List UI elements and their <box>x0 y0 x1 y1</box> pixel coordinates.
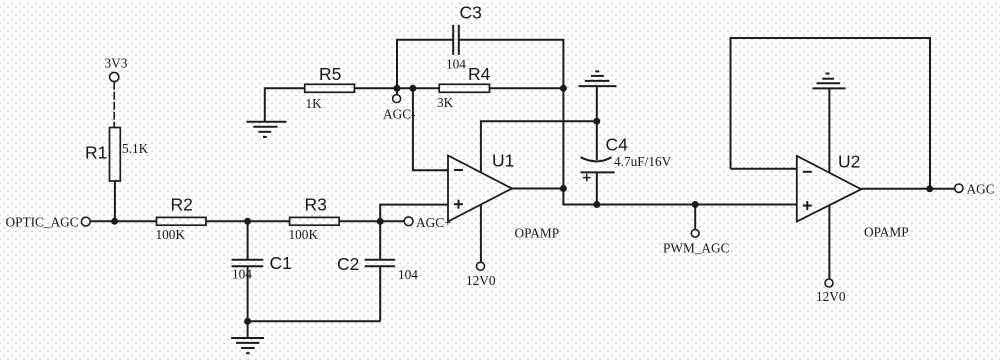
svg-text:C4: C4 <box>606 135 629 155</box>
wire <box>481 121 597 173</box>
capacitor C2 <box>337 221 418 321</box>
svg-text:1K: 1K <box>306 96 323 111</box>
svg-text:104: 104 <box>446 57 466 72</box>
junction <box>409 85 416 92</box>
junction <box>377 218 384 225</box>
wire <box>562 88 564 188</box>
svg-text:U2: U2 <box>838 152 860 172</box>
wire <box>206 220 290 222</box>
svg-text:OPAMP: OPAMP <box>864 225 909 240</box>
svg-text:AGC: AGC <box>967 182 995 197</box>
svg-text:R4: R4 <box>468 64 491 84</box>
svg-text:C1: C1 <box>270 253 292 273</box>
ground <box>246 88 304 137</box>
node OPTIC_AGC <box>6 214 91 229</box>
svg-text:AGC+: AGC+ <box>416 215 452 230</box>
junction <box>244 318 251 325</box>
svg-text:R1: R1 <box>85 142 107 162</box>
wire <box>114 181 116 221</box>
svg-text:PWM_AGC: PWM_AGC <box>663 241 730 256</box>
wire <box>413 88 448 170</box>
svg-text:104: 104 <box>232 267 252 282</box>
ground <box>579 71 617 121</box>
svg-text:R3: R3 <box>305 195 327 215</box>
resistor R2 <box>156 195 207 242</box>
junction <box>111 218 118 225</box>
resistor R4 <box>437 64 491 110</box>
wire <box>512 188 563 190</box>
wire <box>339 220 380 222</box>
ground <box>231 321 264 353</box>
power 12V0 <box>816 279 846 304</box>
capacitor C4 <box>581 121 672 204</box>
junction <box>593 118 600 125</box>
svg-text:12V0: 12V0 <box>816 289 846 304</box>
svg-text:100K: 100K <box>289 227 319 242</box>
resistor R3 <box>289 195 340 242</box>
junction <box>593 201 600 208</box>
wire <box>480 204 482 262</box>
wire <box>354 87 439 89</box>
wire <box>828 205 830 279</box>
svg-text:5.1K: 5.1K <box>122 141 149 156</box>
op-amp U2 <box>797 152 861 222</box>
wire <box>731 168 797 170</box>
wire <box>90 220 156 222</box>
junction <box>926 185 933 192</box>
junction <box>692 201 699 208</box>
junction <box>560 85 567 92</box>
wire <box>490 87 564 89</box>
capacitor C3 <box>397 3 563 89</box>
svg-text:3V3: 3V3 <box>105 56 128 71</box>
ground <box>812 74 845 174</box>
resistor R5 <box>305 64 355 111</box>
node PWM_AGC <box>663 205 730 256</box>
svg-text:OPTIC_AGC: OPTIC_AGC <box>6 214 79 229</box>
svg-text:104: 104 <box>398 267 418 282</box>
svg-text:R2: R2 <box>171 195 193 215</box>
svg-text:C3: C3 <box>460 3 482 23</box>
svg-text:100K: 100K <box>156 227 186 242</box>
svg-text:OPAMP: OPAMP <box>515 226 560 241</box>
node AGC <box>955 182 995 197</box>
wire <box>113 82 115 128</box>
capacitor C1 <box>232 221 292 321</box>
wire <box>380 205 448 222</box>
junction <box>244 218 251 225</box>
junction <box>394 85 401 92</box>
node AGC+ <box>380 215 451 230</box>
wire <box>563 189 796 205</box>
resistor R1 <box>85 128 149 182</box>
node AGC- <box>383 88 416 121</box>
svg-text:C2: C2 <box>337 254 359 274</box>
op-amp U1 <box>448 151 514 222</box>
wire <box>248 320 381 322</box>
junction <box>560 185 567 192</box>
power 12V0 <box>466 262 496 288</box>
svg-text:4.7uF/16V: 4.7uF/16V <box>614 154 672 169</box>
wire <box>731 38 931 189</box>
svg-text:U1: U1 <box>492 151 514 171</box>
svg-text:12V0: 12V0 <box>466 273 496 288</box>
svg-text:R5: R5 <box>319 64 341 84</box>
power 3V3 <box>105 56 128 82</box>
wire <box>861 188 954 190</box>
svg-text:AGC-: AGC- <box>383 107 416 122</box>
svg-text:3K: 3K <box>437 95 454 110</box>
